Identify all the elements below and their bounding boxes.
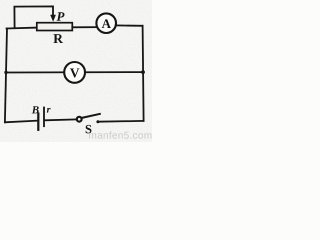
label S (switch): [86, 125, 92, 133]
wire: rheostat slider loop: [14, 6, 53, 27]
label P (slider): [56, 12, 64, 21]
wire: left vertical: [5, 29, 7, 123]
wire: bottom-left horizontal: [5, 121, 37, 123]
wire: right vertical: [143, 26, 144, 121]
arrowhead of slider P: [50, 15, 56, 22]
voltmeter V: circle: [64, 62, 85, 83]
switch S lever (open): [82, 114, 100, 118]
battery B: right plate (positive): [43, 108, 45, 127]
label r (internal resistance): [47, 108, 51, 113]
junction: middle-left: [4, 71, 7, 74]
wire: battery to switch pivot: [45, 118, 76, 121]
watermark manfen5.com: [89, 131, 151, 138]
wire: top-left horizontal: [7, 27, 38, 30]
ammeter A: circle: [96, 13, 116, 33]
wire: resistor to ammeter: [72, 26, 97, 28]
label R (rheostat): [53, 34, 63, 43]
switch S fixed contact dot: [96, 120, 99, 123]
label B (battery emf): [32, 106, 39, 113]
wire: middle horizontal (voltmeter branch): [6, 71, 143, 73]
label V (voltmeter): [70, 68, 79, 77]
junction: middle-right: [141, 70, 145, 74]
label A (ammeter): [102, 19, 111, 28]
battery B: left plate (negative): [37, 114, 39, 130]
resistor R body: [37, 23, 73, 31]
wire: switch to bottom-right corner: [99, 120, 144, 123]
wire: ammeter to top-right corner: [116, 24, 143, 26]
paper grain: [0, 0, 152, 142]
switch S pivot ring: [77, 117, 82, 122]
